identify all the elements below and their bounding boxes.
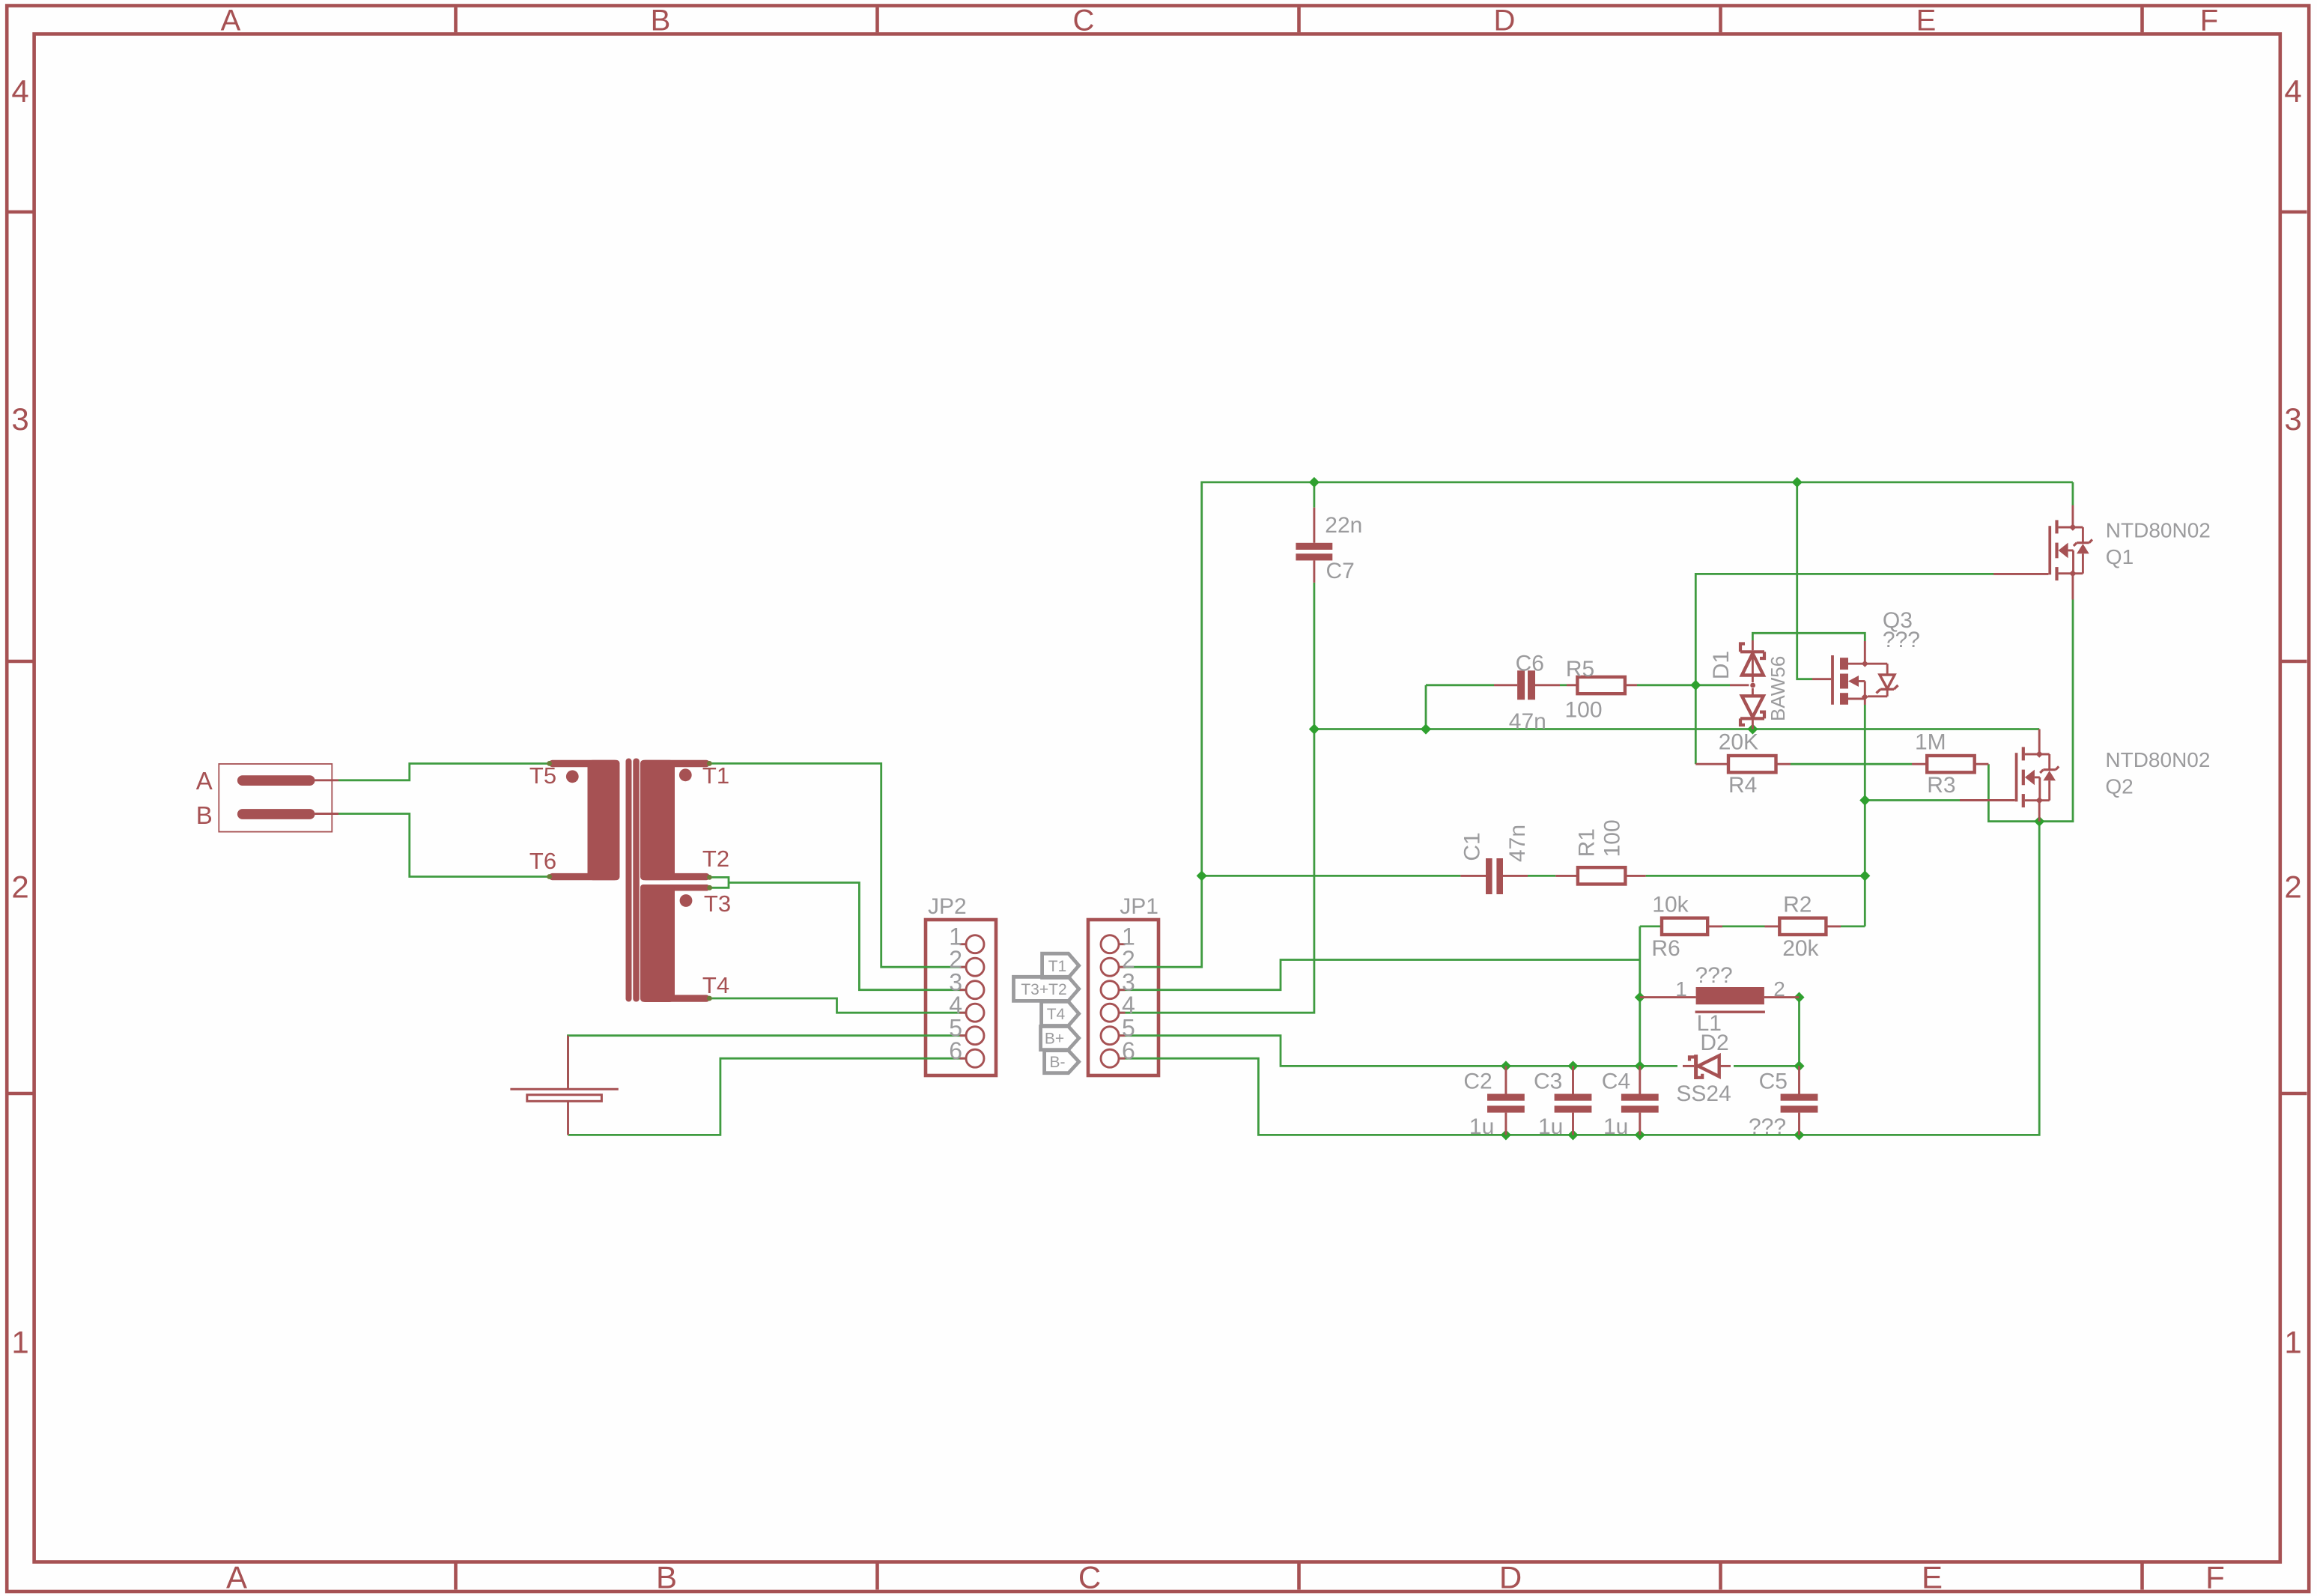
svg-text:A: A [226,1560,247,1595]
svg-text:4: 4 [2284,73,2301,109]
svg-text:D1: D1 [1709,651,1734,679]
svg-text:1: 1 [2284,1325,2301,1360]
svg-text:B+: B+ [1045,1031,1064,1048]
svg-text:F: F [2200,4,2218,37]
svg-text:T1: T1 [702,762,729,789]
svg-text:A: A [221,4,241,37]
svg-text:47n: 47n [1505,825,1530,862]
svg-text:6: 6 [949,1037,962,1064]
svg-text:C5: C5 [1759,1069,1788,1094]
svg-text:T6: T6 [529,848,556,874]
svg-text:22n: 22n [1325,513,1362,538]
svg-text:T4: T4 [702,972,729,998]
svg-text:???: ??? [1695,963,1733,988]
svg-text:3: 3 [2284,401,2301,437]
svg-text:NTD80N02: NTD80N02 [2105,748,2210,771]
svg-text:T2: T2 [702,846,729,872]
svg-text:NTD80N02: NTD80N02 [2106,519,2211,542]
svg-text:4: 4 [11,73,28,109]
svg-text:T1: T1 [1048,958,1067,975]
svg-text:20k: 20k [1782,936,1819,961]
svg-text:SS24: SS24 [1676,1081,1731,1106]
svg-text:3: 3 [11,401,28,437]
svg-text:R3: R3 [1927,773,1955,798]
svg-text:1: 1 [1675,977,1687,1001]
svg-text:B: B [656,1560,677,1595]
svg-text:R6: R6 [1651,936,1680,961]
svg-text:1u: 1u [1538,1114,1563,1139]
svg-text:D: D [1494,4,1516,37]
svg-text:47n: 47n [1509,709,1546,734]
svg-text:BAW56: BAW56 [1767,656,1789,721]
svg-text:C3: C3 [1534,1069,1562,1094]
svg-text:T3+T2: T3+T2 [1021,981,1066,998]
svg-text:6: 6 [1122,1037,1135,1064]
svg-text:B-: B- [1050,1054,1066,1071]
svg-text:B: B [651,4,671,37]
svg-text:2: 2 [2284,870,2301,905]
svg-text:E: E [1922,1560,1943,1595]
svg-text:???: ??? [1883,628,1920,652]
svg-text:C7: C7 [1326,559,1355,583]
svg-text:D: D [1499,1560,1522,1595]
svg-text:100: 100 [1565,698,1603,723]
svg-text:20K: 20K [1719,729,1758,754]
svg-text:C4: C4 [1602,1069,1630,1094]
svg-text:100: 100 [1600,819,1625,857]
svg-text:T5: T5 [529,762,556,789]
svg-text:T3: T3 [704,890,731,917]
svg-text:C1: C1 [1460,832,1485,861]
svg-text:???: ??? [1749,1114,1786,1139]
svg-text:F: F [2205,1560,2225,1595]
svg-text:T4: T4 [1047,1006,1066,1023]
svg-text:1u: 1u [1603,1114,1628,1139]
svg-text:JP1: JP1 [1120,894,1158,919]
svg-text:1u: 1u [1469,1114,1494,1139]
svg-text:A: A [196,767,213,795]
svg-text:D2: D2 [1700,1031,1728,1055]
svg-text:R1: R1 [1575,828,1600,857]
svg-text:C2: C2 [1463,1069,1492,1094]
svg-text:Q2: Q2 [2105,774,2133,798]
svg-text:E: E [1916,4,1937,37]
svg-text:2: 2 [11,870,28,905]
svg-text:Q1: Q1 [2106,545,2134,568]
svg-text:R2: R2 [1783,893,1812,917]
svg-text:R4: R4 [1728,773,1757,798]
svg-text:C6: C6 [1516,652,1544,676]
svg-text:B: B [196,801,213,829]
svg-text:C: C [1073,4,1095,37]
svg-text:R5: R5 [1566,657,1594,682]
svg-text:1: 1 [11,1325,28,1360]
svg-text:10k: 10k [1652,893,1689,917]
svg-text:2: 2 [1773,977,1785,1001]
svg-text:JP2: JP2 [928,894,967,919]
svg-text:C: C [1078,1560,1101,1595]
svg-text:1M: 1M [1915,729,1946,754]
